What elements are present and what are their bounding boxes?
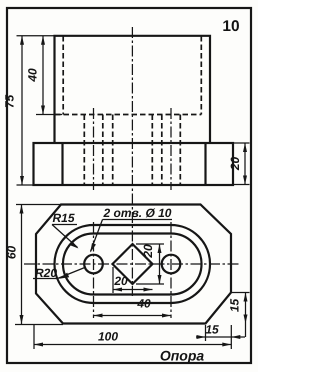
dimension 20 text bbox=[228, 157, 242, 172]
svg-text:75: 75 bbox=[3, 95, 17, 109]
dimension 60 extension top bbox=[16, 204, 61, 206]
hidden line: right hole left edge bbox=[161, 115, 163, 186]
hidden line: recess bottom bbox=[55, 114, 201, 116]
hidden line: right hole right edge bbox=[179, 115, 181, 186]
center line: plan right hole vertical axis bbox=[170, 222, 172, 318]
svg-text:100: 100 bbox=[98, 330, 118, 344]
dimension 40 text bbox=[26, 68, 40, 83]
dimension 20 vertical (square) extension bottom bbox=[136, 283, 164, 285]
svg-text:20: 20 bbox=[228, 157, 242, 172]
dimension 20 vertical (square) extension top bbox=[136, 243, 164, 245]
leader R20 bbox=[33, 267, 86, 279]
plan view: inner recess stadium R15 bbox=[63, 234, 202, 295]
dimension 15 right line bbox=[244, 293, 248, 338]
dimension 40 (holes) line bbox=[94, 314, 172, 318]
dimension 100 extension left bbox=[33, 325, 35, 349]
hidden line: square hole left edge bbox=[112, 115, 114, 186]
dimension 15 bottom extension left bbox=[205, 325, 207, 341]
svg-text:40: 40 bbox=[26, 68, 40, 83]
dimension 60 extension bottom bbox=[15, 324, 63, 326]
dimension 100 line bbox=[34, 343, 231, 347]
hidden line: square hole right edge bbox=[151, 115, 153, 186]
leader 2 holes dia 10 bbox=[90, 220, 172, 253]
svg-text:40: 40 bbox=[136, 297, 151, 311]
center line: plan left hole vertical axis bbox=[93, 222, 95, 318]
dimension 40 extension bottom bbox=[36, 114, 62, 116]
svg-text:Опора: Опора bbox=[160, 348, 205, 364]
svg-text:R15: R15 bbox=[52, 211, 74, 225]
plan view: outer boss stadium R20 bbox=[55, 225, 211, 303]
center line: plan horizontal axis bbox=[24, 263, 241, 265]
dimension 20 extension bottom bbox=[233, 184, 250, 186]
front view: base chamfer edge left bbox=[61, 143, 63, 185]
front view: base chamfer edge right bbox=[204, 143, 206, 185]
dimension 20 vertical (square) line bbox=[158, 244, 162, 284]
label R15 bbox=[52, 211, 74, 225]
border frame bbox=[7, 8, 251, 363]
dimension 100 text bbox=[98, 330, 118, 344]
hidden line: recess left wall bbox=[62, 36, 64, 115]
dimension 60 text bbox=[5, 246, 19, 260]
dimension 20 extension top bbox=[233, 142, 250, 144]
hidden line: left hole right edge bbox=[102, 115, 104, 186]
plan view: right hole bbox=[162, 255, 181, 274]
title text Opora bbox=[160, 348, 205, 364]
dimension 20 line bbox=[243, 143, 247, 185]
dimension 75 extension top bbox=[17, 35, 55, 37]
dimension 20 horizontal (square) line bbox=[113, 288, 153, 292]
dimension 20 horizontal (square) extension left bbox=[112, 267, 114, 293]
dimension 100 extension right bbox=[230, 325, 232, 349]
svg-text:2 отв. Ø 10: 2 отв. Ø 10 bbox=[103, 206, 172, 220]
leader R15 bbox=[52, 225, 79, 249]
dimension 75 text bbox=[3, 95, 17, 109]
dimension 75 extension bottom bbox=[17, 184, 34, 186]
dimension 20 vertical text bbox=[141, 244, 155, 259]
plan view: square hole (diamond) bbox=[113, 244, 153, 284]
center line: right hole axis front view bbox=[170, 108, 172, 190]
svg-text:10: 10 bbox=[222, 18, 239, 35]
plan view: octagonal plate outline bbox=[36, 205, 231, 324]
dimension 15 bottom line bbox=[196, 335, 245, 339]
dimension 15 right extension top bbox=[231, 292, 250, 294]
sheet number 10 bbox=[222, 18, 239, 35]
svg-text:20: 20 bbox=[141, 244, 155, 259]
hidden line: recess right wall bbox=[200, 36, 202, 115]
dimension 15 bottom text bbox=[205, 323, 219, 337]
front view: base plate outline bbox=[34, 143, 234, 185]
svg-text:20: 20 bbox=[113, 274, 128, 288]
dimension 15 right text bbox=[228, 299, 242, 313]
front view: boss outline bbox=[55, 36, 211, 143]
dimension 40 line bbox=[41, 36, 45, 115]
dimension 40 text bbox=[136, 297, 151, 311]
dimension 75 line bbox=[20, 36, 24, 185]
center line: left hole axis front view bbox=[93, 108, 95, 190]
svg-text:60: 60 bbox=[5, 246, 19, 260]
hidden line: left hole left edge bbox=[83, 115, 85, 186]
center line: main axis front view and plan bbox=[131, 27, 133, 296]
dimension 20 horizontal text bbox=[113, 274, 128, 288]
label R20 bbox=[35, 266, 57, 280]
svg-text:15: 15 bbox=[205, 323, 219, 337]
svg-text:R20: R20 bbox=[35, 266, 57, 280]
label 2 otv. dia 10 bbox=[103, 206, 172, 220]
plan view: left hole bbox=[84, 255, 103, 274]
dimension 60 line bbox=[20, 205, 24, 325]
svg-text:15: 15 bbox=[228, 299, 242, 313]
